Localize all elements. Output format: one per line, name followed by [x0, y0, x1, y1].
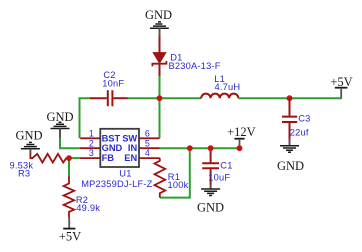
svg-text:49.9k: 49.9k	[76, 203, 100, 213]
wire C2 to SW junction	[128, 97, 160, 99]
svg-text:U1: U1	[119, 169, 131, 179]
wire SW junction to L1	[160, 97, 202, 99]
svg-text:GND: GND	[102, 143, 123, 153]
pin 2 GND stub	[80, 147, 100, 149]
svg-text:10nF: 10nF	[102, 79, 124, 89]
svg-text:+12V: +12V	[227, 125, 256, 139]
node +12V tap	[237, 145, 243, 151]
svg-text:22uf: 22uf	[290, 128, 309, 138]
wire L1 to +5V	[238, 97, 341, 99]
ground below C3	[277, 140, 304, 173]
node SW junction	[157, 95, 163, 101]
svg-text:2: 2	[89, 138, 94, 148]
IC body U1	[100, 129, 139, 167]
svg-text:BST: BST	[102, 133, 121, 143]
wire GND to pin 2	[60, 138, 81, 149]
svg-text:EN: EN	[124, 153, 137, 163]
wire diode cathode to SW node	[159, 76, 161, 98]
svg-text:IN: IN	[128, 143, 138, 153]
svg-text:3: 3	[89, 148, 94, 158]
svg-text:FB: FB	[102, 153, 115, 163]
node R1 loop junction	[187, 145, 193, 151]
power +5V top right	[330, 75, 352, 98]
wire FB node right to pin 3	[69, 157, 81, 159]
inductor L1	[201, 74, 240, 99]
svg-text:1: 1	[89, 128, 94, 138]
capacitor C3	[282, 98, 310, 140]
svg-text:4.7uH: 4.7uH	[215, 82, 241, 92]
wire BST corner to C2	[80, 98, 91, 138]
svg-text:100k: 100k	[168, 180, 189, 190]
svg-text:5: 5	[145, 138, 150, 148]
wire SW node down to pin 6	[159, 98, 161, 138]
svg-text:MP2359DJ-LF-Z: MP2359DJ-LF-Z	[81, 179, 152, 189]
power +5V bottom	[59, 217, 81, 244]
wire R1 bottom loop	[160, 148, 190, 197]
IC U1 MP2359DJ-LF-Z	[80, 128, 160, 189]
wire IN rail pin5 to +12V	[160, 147, 240, 149]
svg-text:GND: GND	[145, 8, 172, 22]
svg-text:+5V: +5V	[59, 230, 81, 244]
pin 4 EN stub	[139, 157, 160, 159]
svg-text:10uF: 10uF	[208, 172, 230, 182]
svg-text:C1: C1	[220, 161, 232, 171]
svg-text:B230A-13-F: B230A-13-F	[169, 61, 221, 71]
ground GND far left	[15, 129, 42, 154]
svg-text:GND: GND	[197, 201, 224, 215]
wire FB node down to R2	[68, 158, 70, 176]
capacitor C1	[202, 148, 232, 185]
node FB junction	[66, 155, 72, 161]
resistor R1	[155, 158, 189, 198]
svg-text:4: 4	[145, 148, 150, 158]
ground GND top	[145, 8, 172, 37]
resistor R3	[10, 153, 70, 179]
svg-text:GND: GND	[277, 159, 304, 173]
node C3 junction	[287, 95, 293, 101]
pin 5 IN stub	[139, 147, 160, 149]
svg-text:GND: GND	[15, 129, 42, 143]
node C1 junction	[208, 145, 214, 151]
pin 6 SW stub	[139, 137, 160, 139]
diode D1	[152, 37, 220, 78]
resistor R2	[64, 176, 101, 217]
power +12V	[227, 125, 256, 146]
ground GND above pin 2	[46, 110, 73, 138]
svg-text:6: 6	[145, 128, 150, 138]
pin 1 BST stub	[80, 137, 100, 139]
ground below C1	[197, 185, 224, 215]
pin 3 FB stub	[80, 157, 100, 159]
svg-text:C3: C3	[298, 113, 310, 123]
svg-text:R3: R3	[18, 169, 30, 179]
capacitor C2	[90, 70, 128, 106]
svg-text:SW: SW	[122, 133, 137, 143]
